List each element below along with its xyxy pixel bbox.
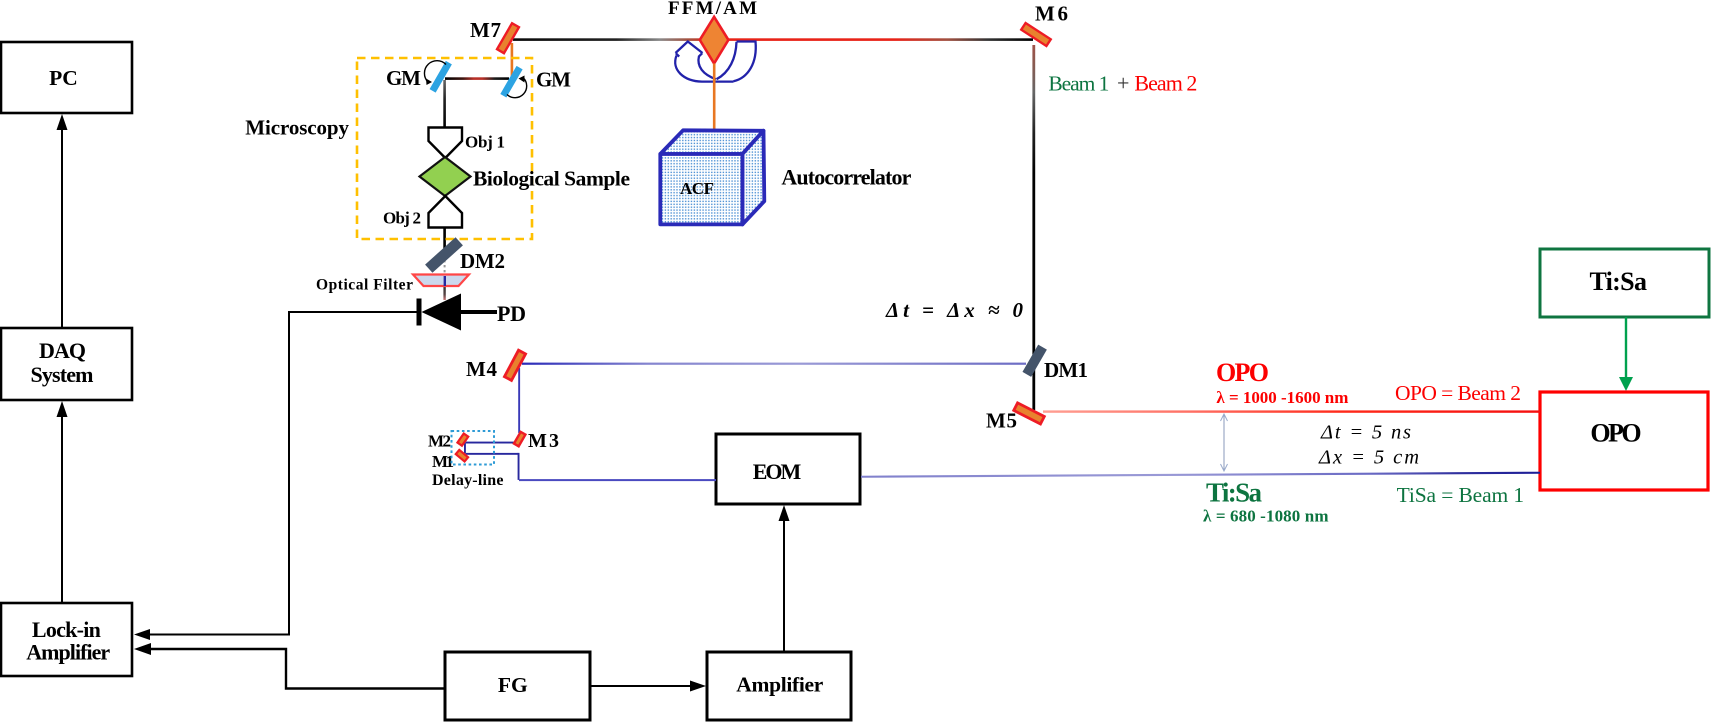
svg-text:TiSa = Beam 1: TiSa = Beam 1 <box>1397 483 1525 507</box>
wire FG to Lock-in <box>134 643 444 689</box>
svg-text:Ti:Sa: Ti:Sa <box>1206 478 1263 508</box>
svg-text:Autocorrelator: Autocorrelator <box>781 165 911 190</box>
wire Amplifier to EOM with arrow <box>779 505 790 652</box>
label TiSa = Beam 1 <box>1397 483 1525 507</box>
svg-text:DAQ: DAQ <box>39 338 86 363</box>
svg-text:PC: PC <box>49 66 78 90</box>
wire beam FFM/AM down to ACF orange <box>713 64 716 138</box>
svg-text:DM2: DM2 <box>460 249 505 273</box>
box DAQ System <box>1 328 132 400</box>
label Ti:Sa green <box>1203 478 1329 526</box>
dashed box Microscopy <box>245 58 532 239</box>
wire DAQ to PC with arrow <box>57 114 68 328</box>
label delta t = delta x approx 0 <box>885 298 1024 322</box>
svg-text:λ = 1000 -1600 nm: λ = 1000 -1600 nm <box>1216 388 1348 407</box>
svg-text:Δt = Δx ≈ 0: Δt = Δx ≈ 0 <box>885 298 1024 322</box>
wire beam M3 to M2 <box>466 442 516 444</box>
objective Obj 2 <box>383 196 462 228</box>
svg-text:EOM: EOM <box>753 459 802 484</box>
photodiode PD <box>417 294 527 331</box>
flip mirror FFM/AM diamond <box>668 0 757 64</box>
wire beam M7 to FFM/AM <box>513 38 701 41</box>
svg-text:Beam 2: Beam 2 <box>1134 70 1197 95</box>
mirror M3 <box>514 430 559 452</box>
wire beam GM to GM <box>445 77 509 80</box>
svg-text:Lock-in: Lock-in <box>32 617 101 642</box>
wire beam M7 down to GM orange <box>511 43 514 79</box>
svg-text:OPO: OPO <box>1216 358 1269 387</box>
label Beam 1 + Beam 2 <box>1048 70 1197 95</box>
mirror M4 <box>466 350 526 381</box>
mirror DM2 <box>425 237 505 273</box>
svg-text:PD: PD <box>497 301 526 326</box>
wire beam EOM to OPO <box>861 472 1540 478</box>
svg-text:GM: GM <box>386 66 421 90</box>
svg-text:DM1: DM1 <box>1044 358 1088 382</box>
svg-text:Beam 1: Beam 1 <box>1048 71 1109 95</box>
wire beam GM down to Obj1 <box>443 80 446 128</box>
label OPO = Beam 2 <box>1395 381 1521 405</box>
svg-text:Obj 2: Obj 2 <box>383 209 421 228</box>
wire beam M6 down to M5 <box>1032 45 1035 410</box>
wire beam DM2 to filter dotted <box>444 255 446 276</box>
wire beam M1 right <box>466 453 519 455</box>
mirror DM1 <box>1022 345 1088 382</box>
wire FG to Amplifier with arrow <box>590 681 706 692</box>
svg-text:Delay-line: Delay-line <box>432 472 504 489</box>
mirror M6 <box>1021 2 1068 47</box>
box Amplifier <box>707 652 851 720</box>
wire beam delay-line to EOM <box>519 479 716 481</box>
mirror M7 <box>470 18 519 53</box>
mirror M5 <box>986 403 1044 433</box>
mirror M1 <box>432 450 468 471</box>
svg-text:M5: M5 <box>986 409 1017 433</box>
svg-text:Biological Sample: Biological Sample <box>473 167 630 191</box>
svg-text:M7: M7 <box>470 18 501 42</box>
wire beam M4 down to M3 <box>518 368 520 433</box>
svg-text:Microscopy: Microscopy <box>245 116 349 140</box>
svg-text:OPO = Beam 2: OPO = Beam 2 <box>1395 381 1521 405</box>
objective Obj 1 <box>429 128 506 159</box>
svg-text:Amplifier: Amplifier <box>26 640 110 665</box>
svg-text:Δx = 5 cm: Δx = 5 cm <box>1318 447 1419 469</box>
box Lock-in Amplifier <box>1 603 132 676</box>
optical filter <box>316 275 469 294</box>
wire beam DM1 to M4 blue <box>522 363 1026 365</box>
svg-text:Optical Filter: Optical Filter <box>316 277 413 294</box>
wire beam filter down to PD <box>443 286 445 300</box>
wire beam FFM/AM to M6 <box>728 38 1033 41</box>
wire Lock-in to DAQ with arrow <box>57 401 68 603</box>
svg-text:FG: FG <box>498 673 528 697</box>
wire beam delay-line down <box>518 453 520 480</box>
blue rotation arrows under FFM/AM <box>675 42 756 82</box>
svg-text:+: + <box>1117 70 1129 95</box>
svg-text:M3: M3 <box>528 430 559 452</box>
label OPO red <box>1216 358 1348 407</box>
box PC <box>1 42 132 113</box>
wire Ti:Sa to OPO green arrow <box>1619 317 1633 391</box>
svg-text:Amplifier: Amplifier <box>736 673 823 697</box>
svg-text:OPO: OPO <box>1590 419 1641 448</box>
svg-text:λ = 680 -1080 nm: λ = 680 -1080 nm <box>1203 507 1329 526</box>
labels delta t and delta x <box>1318 422 1419 469</box>
wire beam Obj2 down to DM2 <box>443 228 446 251</box>
box Ti:Sa <box>1540 249 1709 317</box>
svg-text:Obj 1: Obj 1 <box>465 133 505 152</box>
svg-text:FFM/AM: FFM/AM <box>668 0 757 19</box>
wire beam M2 down to M1 <box>464 442 466 454</box>
biological sample diamond <box>420 157 631 196</box>
wire PD to Lock-in <box>134 312 417 640</box>
galvo mirror GM right <box>500 66 571 98</box>
svg-text:M2: M2 <box>428 432 451 451</box>
svg-text:Ti:Sa: Ti:Sa <box>1589 267 1647 296</box>
svg-text:ACF: ACF <box>680 179 714 198</box>
double arrow between beams <box>1221 414 1228 471</box>
mirror M2 <box>428 432 468 451</box>
dotted box delay-line <box>432 431 504 489</box>
box OPO <box>1540 392 1708 490</box>
svg-text:M6: M6 <box>1035 2 1068 26</box>
autocorrelator ACF cube <box>660 130 911 224</box>
box FG <box>445 652 590 720</box>
box EOM <box>716 434 860 504</box>
galvo mirror GM left <box>386 61 452 93</box>
svg-text:GM: GM <box>536 68 571 92</box>
svg-text:M4: M4 <box>466 357 498 381</box>
svg-text:System: System <box>31 362 94 387</box>
wire beam M5 to OPO red <box>1043 410 1540 412</box>
